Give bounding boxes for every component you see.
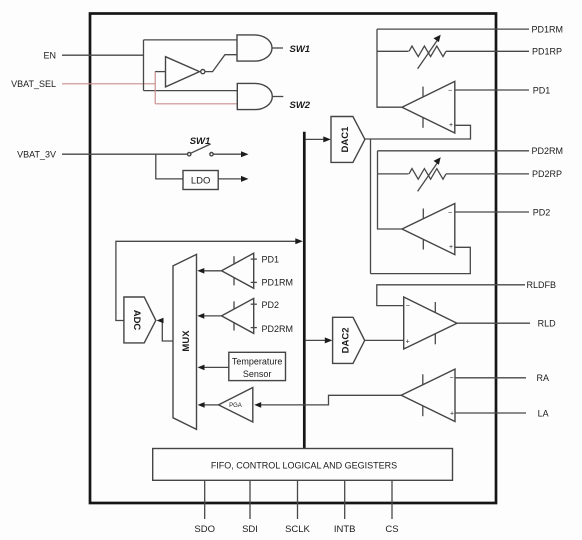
arrowhead LDO output xyxy=(241,176,249,182)
tick marks op-amp A2 xyxy=(422,209,424,219)
pin SDI xyxy=(249,480,251,519)
FIFO control registers block xyxy=(153,449,453,481)
tick marks op-amp A1 xyxy=(422,87,424,97)
svg-text:CS: CS xyxy=(385,524,398,535)
arrowhead into ADC point xyxy=(157,318,164,324)
wire PD2 net xyxy=(455,211,529,213)
svg-text:SDI: SDI xyxy=(242,524,258,535)
svg-text:FIFO, CONTROL LOGICAL AND GEGI: FIFO, CONTROL LOGICAL AND GEGISTERS xyxy=(211,461,397,471)
wire EN vertical branch xyxy=(143,40,145,91)
switch SW1 blade xyxy=(191,144,211,153)
wire VBAT_SEL vertical branch (pink) xyxy=(154,72,156,104)
svg-text:Temperature: Temperature xyxy=(232,357,283,367)
svg-text:+: + xyxy=(406,338,410,345)
tick marks buffer PD1 xyxy=(233,256,235,264)
svg-text:+: + xyxy=(450,411,454,418)
svg-text:PD1RP: PD1RP xyxy=(532,47,562,57)
wire opamp RA/LA output to PGA xyxy=(260,395,402,405)
PD2 block left rail xyxy=(378,151,403,229)
svg-text:SCLK: SCLK xyxy=(285,524,310,535)
arrowhead PGA to MUX xyxy=(198,402,205,408)
regulator LDO xyxy=(183,171,218,190)
tick marks op-amp A4 xyxy=(422,374,424,385)
svg-text:PD1: PD1 xyxy=(262,254,280,264)
potentiometer R1 xyxy=(409,46,446,57)
pin SCLK xyxy=(297,480,299,519)
DAC2 U4 xyxy=(333,317,365,363)
inverter U1 xyxy=(166,57,200,87)
svg-text:RLDFB: RLDFB xyxy=(527,280,557,290)
arrowhead buffer PD2 to MUX xyxy=(197,313,204,319)
potentiometer R2 xyxy=(409,169,446,180)
svg-text:PD1RM: PD1RM xyxy=(532,24,564,34)
wire PD1RP net right xyxy=(446,50,529,52)
ADC U2 xyxy=(124,297,156,343)
arrowhead into PGA xyxy=(254,402,261,408)
PD1 block left rail xyxy=(377,29,402,107)
buffer amp PD1 xyxy=(222,253,254,288)
svg-text:PD1: PD1 xyxy=(533,85,551,95)
svg-text:PGA: PGA xyxy=(229,403,242,409)
wire AND1 output xyxy=(272,47,283,49)
wire DAC1 output net xyxy=(365,125,471,139)
wire VBAT_SEL to AND2 input B (pink) xyxy=(155,103,237,105)
arrowhead ADC output at bus xyxy=(295,238,303,244)
svg-text:MUX: MUX xyxy=(181,330,192,352)
svg-text:+: + xyxy=(449,244,453,251)
svg-text:PD2RM: PD2RM xyxy=(532,146,564,156)
svg-text:+: + xyxy=(449,122,453,129)
chip outer border xyxy=(90,14,496,504)
multiplexer MUX xyxy=(173,254,197,429)
pin SDO xyxy=(204,480,206,519)
wire LA net xyxy=(455,412,526,414)
wire EN input xyxy=(62,54,144,56)
buffer amp PD2 xyxy=(222,298,254,333)
wire PD1 net xyxy=(455,89,529,91)
svg-text:PD2RP: PD2RP xyxy=(532,169,562,179)
input stubs buffer PD1 xyxy=(251,258,257,260)
wire PD2RP net left xyxy=(378,173,409,175)
amplifier PGA xyxy=(219,388,253,423)
arrowhead into DAC1 xyxy=(323,136,331,142)
switch SW1 contact left xyxy=(188,153,191,156)
wire PD1RM net xyxy=(377,28,529,30)
wire inverter output to AND1 input B xyxy=(205,55,237,72)
svg-text:LDO: LDO xyxy=(191,175,211,186)
tick marks buffer PD2 xyxy=(233,301,235,309)
wire RLDFB feedback xyxy=(377,285,525,306)
wire PD1RP net left xyxy=(377,50,409,52)
wire bus to DAC2 xyxy=(306,339,327,341)
wire MUX output to ADC xyxy=(162,321,174,342)
wire VBAT_SEL input (pink) xyxy=(62,83,155,85)
svg-text:PD1RM: PD1RM xyxy=(262,278,294,288)
DAC1 U3 xyxy=(331,117,365,163)
pin CS xyxy=(391,480,393,519)
svg-text:VBAT_SEL: VBAT_SEL xyxy=(11,79,56,89)
AND gate SW2 xyxy=(237,83,272,109)
tick marks op-amp A3 xyxy=(434,302,436,313)
svg-text:SDO: SDO xyxy=(194,524,215,535)
svg-text:−: − xyxy=(406,303,410,310)
arrowhead buffer PD1 to MUX xyxy=(197,268,204,274)
svg-text:SW2: SW2 xyxy=(290,100,311,111)
wire EN to AND2 input A xyxy=(144,90,238,92)
wire DAC1 net to opamp2 plus xyxy=(371,247,471,273)
wire buffer PD2 to MUX xyxy=(203,315,222,317)
svg-text:INTB: INTB xyxy=(334,524,356,535)
potentiometer R1 arrow xyxy=(418,39,438,69)
op-amp A4 (RA/LA) xyxy=(401,369,455,421)
AND gate SW1 xyxy=(237,35,272,61)
svg-text:−: − xyxy=(450,375,454,382)
inverter bubble xyxy=(201,70,205,74)
wire RLD output xyxy=(457,322,530,324)
svg-text:PD2: PD2 xyxy=(262,300,280,310)
wire ADC output to bus xyxy=(116,241,297,320)
svg-text:SW1: SW1 xyxy=(290,44,311,55)
wire inverter input xyxy=(155,71,166,73)
arrowhead temp sensor to MUX xyxy=(198,365,205,371)
wire PD2RP net right xyxy=(446,173,529,175)
wire bus to DAC1 xyxy=(306,138,325,140)
svg-text:PD2RM: PD2RM xyxy=(262,324,294,334)
wire PGA to MUX xyxy=(203,404,219,406)
input stubs buffer PD2 xyxy=(251,303,257,305)
svg-text:RLD: RLD xyxy=(538,319,557,329)
svg-text:PD2: PD2 xyxy=(533,207,551,217)
wire buffer PD1 to MUX xyxy=(203,270,222,272)
svg-text:EN: EN xyxy=(43,51,56,61)
wire EN to AND1 input A xyxy=(144,39,238,41)
temperature sensor block xyxy=(229,352,286,380)
svg-text:Sensor: Sensor xyxy=(243,369,272,379)
arrowhead switch output xyxy=(241,151,249,157)
wire AND2 output xyxy=(272,96,283,98)
op-amp A1 (PD1 block) xyxy=(402,81,455,133)
switch SW1 contact right xyxy=(210,153,213,156)
svg-text:VBAT_3V: VBAT_3V xyxy=(17,150,56,160)
wire DAC2 to opamp3 plus xyxy=(365,339,404,341)
wire PD2RM net xyxy=(378,150,530,152)
wire VBAT_3V input xyxy=(62,153,188,155)
central bus (thick vertical) xyxy=(303,132,306,449)
potentiometer R2 arrow xyxy=(418,162,438,192)
svg-text:DAC2: DAC2 xyxy=(340,327,351,353)
wire temp sensor to MUX xyxy=(203,366,229,368)
wire DAC1 net vertical xyxy=(370,139,372,274)
wire switch output xyxy=(213,153,242,155)
svg-text:RA: RA xyxy=(537,373,550,383)
svg-text:DAC1: DAC1 xyxy=(340,126,351,153)
svg-text:−: − xyxy=(448,88,452,95)
op-amp A3 (RLD) xyxy=(404,297,457,349)
arrowhead into DAC2 xyxy=(325,337,333,343)
svg-text:ADC: ADC xyxy=(131,310,142,331)
svg-text:−: − xyxy=(448,210,452,217)
pin INTB xyxy=(344,480,346,519)
wire VBAT_3V to LDO xyxy=(156,154,183,179)
svg-text:LA: LA xyxy=(538,408,549,418)
wire RA net xyxy=(455,377,526,379)
wire LDO output xyxy=(218,178,242,180)
op-amp A2 (PD2 block) xyxy=(402,204,455,255)
